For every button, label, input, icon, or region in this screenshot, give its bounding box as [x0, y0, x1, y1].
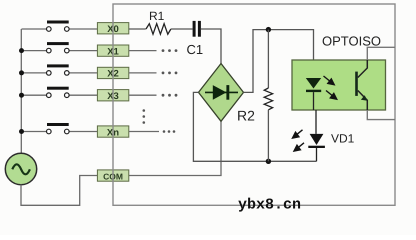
wire X3 stub [129, 94, 157, 96]
wire top rail to R2 [267, 30, 269, 88]
ellipsis row X3 [162, 94, 178, 97]
wire X1 stub [129, 50, 157, 52]
wire Q1 emitter to output [367, 110, 395, 120]
terminal X2 [97, 67, 128, 78]
wire bus to switch S0 [22, 28, 47, 30]
wire bus to switch S2 [22, 72, 47, 74]
terminal COM [97, 170, 128, 181]
junction top rail R2 tap [266, 27, 271, 32]
wire X2 stub [129, 72, 157, 74]
wire switch S3 to X3 [69, 94, 97, 96]
svg-text:VD1: VD1 [331, 132, 355, 146]
AC source G1 [5, 153, 36, 184]
terminal X1 [97, 45, 128, 56]
wire Xn stub [129, 131, 159, 133]
wire switch S1 to X1 [69, 50, 97, 52]
wire switch S2 to X2 [69, 72, 97, 74]
wire left bus [20, 29, 22, 154]
wire Q1 collector to output [367, 47, 395, 60]
wire switch Sn to Xn [69, 131, 97, 133]
ellipsis row X2 [162, 72, 178, 75]
svg-text:OPTOISO: OPTOISO [322, 34, 381, 49]
junction bus row X2 [19, 70, 24, 75]
capacitor C1 [193, 21, 201, 37]
junction bus row X1 [19, 48, 24, 53]
wire bus to switch Sn [22, 131, 47, 133]
junction bus row X3 [19, 93, 24, 98]
wire COM to bridge bottom vertex [129, 121, 221, 175]
LED VD1 [308, 134, 325, 148]
svg-text:R1: R1 [149, 9, 165, 23]
resistor R1 [146, 24, 171, 35]
terminal X3 [97, 90, 128, 101]
svg-text:ybx8.cn: ybx8.cn [238, 197, 301, 214]
bridge rectifier B1 [199, 64, 244, 122]
wire R1 to C1 [171, 28, 193, 30]
switch S0 [47, 21, 70, 32]
wire R2 to bottom rail [267, 110, 269, 162]
resistor R2 [264, 88, 272, 110]
ellipsis row X1 [162, 49, 178, 52]
wire bridge left vertex to bottom rail [193, 92, 316, 161]
junction bus row Xn [19, 129, 24, 134]
wire bus to switch S3 [22, 94, 47, 96]
VD1 emission arrows [293, 130, 305, 151]
wire X0 to R1 [129, 28, 146, 30]
wire switch S0 to X0 [69, 28, 97, 30]
junction bottom rail R2 tap [266, 159, 271, 164]
optocoupler U1 body [292, 60, 386, 110]
wire U1 LED cathode to VD1 [315, 110, 317, 134]
wire bus to switch S1 [22, 50, 47, 52]
phototransistor Q1 [355, 60, 367, 110]
vertical ellipsis between X3 and Xn [143, 109, 146, 124]
svg-text:R2: R2 [237, 108, 255, 124]
terminal X0 [97, 23, 128, 34]
switch Sn [47, 123, 70, 134]
wire bridge right vertex to top rail [244, 30, 314, 93]
svg-text:C1: C1 [187, 42, 204, 57]
U1 LED emission arrows [324, 76, 337, 99]
switch S2 [47, 64, 70, 75]
wire U1 LED cathode [313, 92, 315, 110]
ellipsis row Xn [163, 130, 176, 133]
PLC enclosure border [113, 4, 395, 205]
wire AC source to COM [21, 176, 97, 206]
wire C1 to bridge top vertex [201, 29, 221, 64]
switch S1 [47, 42, 70, 53]
optocoupler U1 LED [306, 78, 321, 92]
wire VD1 cathode to bottom rail [316, 148, 318, 161]
switch S3 [47, 87, 70, 98]
terminal Xn [97, 126, 128, 137]
